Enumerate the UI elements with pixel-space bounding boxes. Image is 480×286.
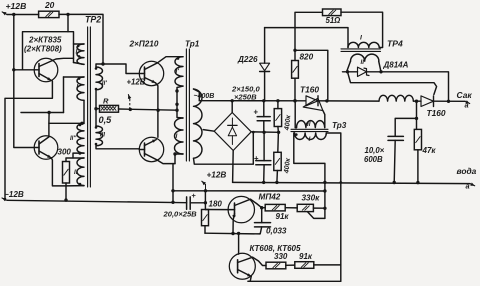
svg-text:I: I <box>360 35 362 42</box>
node <box>171 189 174 192</box>
thyristor T160 (left) <box>306 96 318 106</box>
node <box>293 99 297 103</box>
wire <box>251 199 266 208</box>
svg-text:+: + <box>254 154 259 163</box>
wire <box>14 15 34 148</box>
svg-text:10,0×: 10,0× <box>365 146 385 155</box>
transformer Tr1 core <box>185 49 187 161</box>
winding TP2 I <box>77 77 84 100</box>
wire HV rail <box>199 100 305 102</box>
wire <box>205 232 260 235</box>
svg-text:а: а <box>465 101 469 110</box>
node <box>175 103 178 106</box>
node <box>447 100 450 103</box>
wire <box>395 118 416 136</box>
svg-text:~400В: ~400В <box>194 93 215 100</box>
node <box>325 99 328 102</box>
svg-text:+12В: +12В <box>6 1 27 11</box>
svg-text:Т160: Т160 <box>300 84 319 94</box>
wire <box>158 57 184 63</box>
node <box>415 117 418 120</box>
wire <box>83 100 85 123</box>
node <box>276 99 279 102</box>
wire <box>231 101 233 113</box>
wire <box>205 209 227 211</box>
thyristor T160 (right) <box>421 96 434 107</box>
terminal voda output <box>470 184 475 186</box>
svg-text:91к: 91к <box>299 252 313 261</box>
wire <box>95 90 97 126</box>
svg-text:180: 180 <box>209 200 223 209</box>
wire <box>177 86 183 118</box>
svg-text:I: I <box>176 133 178 140</box>
wire <box>203 130 214 132</box>
wire <box>285 207 297 209</box>
node <box>393 181 396 184</box>
wire <box>51 158 66 186</box>
wire <box>52 58 73 60</box>
svg-text:−12В: −12В <box>4 190 24 199</box>
node <box>129 108 132 111</box>
wire <box>348 72 437 95</box>
node <box>175 109 178 112</box>
wire <box>194 89 200 101</box>
winding Tr3 II <box>297 121 325 128</box>
wire <box>63 77 65 113</box>
resistor R 0,5 <box>100 105 119 112</box>
node <box>80 122 83 125</box>
svg-text:Тр1: Тр1 <box>185 39 200 48</box>
wire <box>204 191 206 210</box>
resistor 20 <box>39 11 59 17</box>
resistor 820 <box>292 61 299 79</box>
svg-text:20,0×25В: 20,0×25В <box>163 210 198 219</box>
node <box>277 131 280 134</box>
resistor 400k (upper) <box>274 109 281 127</box>
node <box>175 89 178 92</box>
node <box>12 68 15 71</box>
svg-text:(2×КТ808): (2×КТ808) <box>24 45 62 54</box>
capacitor C2 150,0x250V <box>256 160 271 162</box>
svg-text:2×П210: 2×П210 <box>129 40 159 49</box>
svg-text:20: 20 <box>44 0 55 10</box>
resistor 300 <box>63 162 70 184</box>
svg-text:I: I <box>76 83 78 90</box>
node <box>94 107 97 110</box>
wire <box>172 164 174 203</box>
svg-text:Д226: Д226 <box>237 55 258 64</box>
wire <box>294 101 296 128</box>
resistor 330 <box>266 262 286 269</box>
svg-text:II′: II′ <box>102 80 107 87</box>
wire voda line <box>233 182 470 183</box>
node <box>47 111 50 114</box>
svg-text:II: II <box>361 59 365 66</box>
resistor 400k (lower) <box>274 152 281 170</box>
svg-text:330: 330 <box>274 252 288 261</box>
wire -12V bus <box>7 200 187 202</box>
wire <box>156 83 158 137</box>
wire <box>434 100 466 102</box>
wire <box>341 12 383 47</box>
node <box>416 181 419 184</box>
terminal +12V (bottom) <box>205 185 207 191</box>
svg-text:47к: 47к <box>422 146 437 155</box>
svg-text:Д814А: Д814А <box>383 61 409 70</box>
transistor Q5 MP42 <box>228 196 254 222</box>
winding TP2 II'' <box>77 124 84 154</box>
wire +12V bus <box>172 190 326 192</box>
svg-text:300: 300 <box>58 147 72 156</box>
wire <box>67 14 69 31</box>
node <box>379 70 382 73</box>
node <box>237 232 240 235</box>
node <box>415 100 418 103</box>
svg-text:II: II <box>307 121 311 128</box>
winding TP2 I' <box>77 44 84 64</box>
wire <box>5 81 52 200</box>
wire <box>381 72 449 102</box>
svg-text:600В: 600В <box>364 155 383 164</box>
node <box>323 181 326 184</box>
winding Tr1 II <box>194 89 202 158</box>
svg-text:×250В: ×250В <box>234 92 257 101</box>
wire <box>413 100 421 102</box>
node <box>262 99 265 102</box>
node <box>346 70 349 73</box>
transistor Q1 KT835 <box>34 58 58 82</box>
wire <box>175 154 183 164</box>
resistor 47k <box>414 129 421 149</box>
svg-text:R: R <box>103 96 109 105</box>
transformer TP4 core <box>341 48 381 50</box>
resistor 51ohm <box>323 9 342 16</box>
svg-text:I′: I′ <box>76 48 80 55</box>
transistor Q2 KT835 <box>34 136 58 160</box>
wire <box>248 276 251 281</box>
winding TP4 I <box>348 42 379 47</box>
transistor Q4 P210 <box>139 137 163 161</box>
wire <box>14 69 34 71</box>
capacitor 0,033 <box>255 222 271 224</box>
node <box>64 198 67 201</box>
node <box>262 181 265 184</box>
wire <box>295 12 323 50</box>
bridge rectifier <box>214 113 251 151</box>
wire <box>59 14 103 63</box>
resistor 91k (output) <box>295 262 314 269</box>
winding Tr3 I <box>295 133 327 140</box>
svg-text:ТР4: ТР4 <box>387 38 403 48</box>
wire <box>416 101 418 129</box>
wire <box>326 133 341 281</box>
svg-text:0,033: 0,033 <box>266 226 287 235</box>
svg-text:+12В: +12В <box>207 171 227 180</box>
winding Tr1 I <box>175 118 184 154</box>
svg-text:+: + <box>254 107 259 116</box>
svg-text:+: + <box>192 191 197 200</box>
wire <box>21 112 64 114</box>
svg-text:III: III <box>100 132 105 139</box>
terminal -12V <box>2 198 7 200</box>
node <box>171 201 174 204</box>
node <box>262 131 265 134</box>
svg-text:Тр3: Тр3 <box>332 121 347 130</box>
svg-text:МП42: МП42 <box>259 193 281 202</box>
node <box>293 49 296 52</box>
winding TP4 II <box>351 54 379 61</box>
terminal +12V (top left) <box>2 12 7 15</box>
wire <box>48 113 50 124</box>
wire <box>248 280 341 282</box>
node <box>323 189 326 192</box>
node <box>260 206 263 209</box>
node <box>231 232 234 235</box>
node <box>231 99 234 102</box>
capacitor 20,0x25V <box>186 197 188 209</box>
wire <box>194 132 254 164</box>
svg-text:I′: I′ <box>176 68 180 75</box>
svg-text:ТР2: ТР2 <box>85 15 101 25</box>
svg-text:330к: 330к <box>302 194 321 203</box>
transistor Q3 P210 <box>139 61 163 85</box>
wire <box>96 146 139 149</box>
wire <box>251 131 278 134</box>
wire <box>265 28 348 48</box>
wire <box>253 257 266 265</box>
transformer Tr3 core <box>291 128 328 130</box>
transistor Q6 KT608 <box>229 253 255 279</box>
node <box>204 189 207 192</box>
svg-text:2×КТ835: 2×КТ835 <box>28 36 62 45</box>
wire <box>158 160 176 163</box>
node <box>156 109 159 112</box>
svg-text:II: II <box>74 169 78 176</box>
wire <box>286 264 295 266</box>
svg-text:I: I <box>309 136 311 143</box>
svg-text:51Ω: 51Ω <box>326 16 341 25</box>
wire <box>49 123 82 137</box>
wire <box>318 100 328 102</box>
svg-text:91к: 91к <box>276 212 290 221</box>
resistor 91k (MP42) <box>265 204 285 211</box>
wire <box>96 64 139 74</box>
wire <box>232 220 234 234</box>
svg-text:а: а <box>466 182 470 191</box>
winding Tr1 I' <box>175 57 183 86</box>
wire <box>23 32 74 70</box>
wire <box>303 98 323 110</box>
diode D226 <box>260 63 270 70</box>
svg-text:Т160: Т160 <box>427 108 446 118</box>
wire <box>295 50 328 101</box>
svg-text:820: 820 <box>300 53 314 62</box>
wire <box>328 100 379 102</box>
svg-text:вода: вода <box>457 166 477 176</box>
capacitor 10,0x600V <box>388 135 403 137</box>
wire <box>314 264 341 266</box>
capacitor C1 150,0x250V <box>257 116 270 118</box>
svg-text:II″: II″ <box>70 136 77 142</box>
winding TP2 II <box>77 158 84 186</box>
terminal Sak output <box>465 101 470 103</box>
inductor L1 <box>379 95 413 101</box>
node <box>173 152 176 155</box>
node <box>339 181 342 184</box>
resistor 330k (pot) <box>297 204 313 211</box>
node (+12V rail tap) <box>12 13 15 16</box>
node <box>323 207 326 210</box>
transformer TP2 core <box>87 27 89 187</box>
svg-text:Сак: Сак <box>457 90 473 100</box>
node <box>204 201 207 204</box>
wire <box>7 14 39 16</box>
node <box>101 62 104 65</box>
node <box>275 181 278 184</box>
wire <box>232 151 235 183</box>
svg-text:0,5: 0,5 <box>99 115 113 125</box>
terminal +12V (P210 emitters) <box>129 99 131 109</box>
winding TP2 III <box>96 126 103 146</box>
zener D814A <box>343 71 358 73</box>
node <box>252 131 255 134</box>
winding TP2 II' (right) <box>96 67 103 90</box>
wire <box>294 133 325 218</box>
svg-text:400к: 400к <box>283 157 292 174</box>
node <box>66 13 69 16</box>
wire <box>65 186 67 200</box>
resistor 180 <box>202 210 209 226</box>
